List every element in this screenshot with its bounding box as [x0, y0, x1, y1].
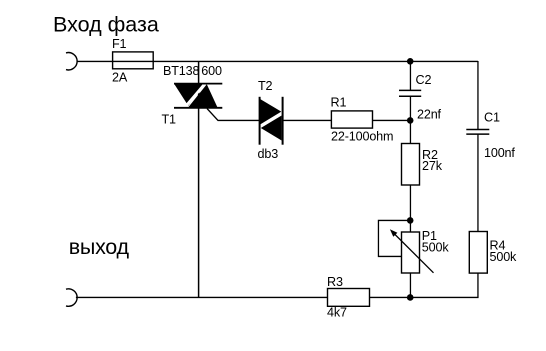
fuse F1	[113, 52, 154, 69]
node B junction dot	[407, 117, 414, 124]
svg-text:22-100ohm: 22-100ohm	[331, 130, 393, 144]
P1 arrowhead	[390, 229, 398, 236]
capacitor C1	[466, 129, 489, 134]
wire: T1 vertical x=198.5 from top rail to bottom rail	[198, 61, 200, 297]
T2 left bar	[259, 97, 261, 145]
P1 arrow line	[393, 232, 434, 273]
svg-text:600: 600	[201, 64, 222, 78]
resistor R1	[331, 111, 372, 128]
T2 right bar	[282, 97, 284, 145]
svg-text:27k: 27k	[422, 159, 443, 173]
T1 bottom bar (MT1)	[174, 107, 222, 109]
svg-text:F1: F1	[112, 37, 127, 51]
T1 top bar (MT2)	[174, 83, 222, 85]
triac T1	[174, 83, 222, 108]
svg-text:db3: db3	[258, 147, 279, 161]
wire: diac T2 to resistor R1	[283, 119, 332, 121]
wire: right vertical branch x=477.8 (C1/R4)	[477, 61, 479, 129]
svg-text:100nf: 100nf	[484, 146, 515, 160]
capacitor C2	[399, 90, 421, 96]
svg-text:500k: 500k	[422, 240, 450, 254]
T2 upper triangle	[261, 99, 282, 124]
wire: gate of T1 to diac T2	[207, 109, 260, 121]
white gap stripe of T1	[186, 83, 206, 107]
wire: bottom rail y=297.4 left part	[76, 296, 328, 298]
svg-text:4k7: 4k7	[327, 306, 347, 320]
svg-text:500k: 500k	[490, 250, 518, 264]
resistor R3	[328, 289, 370, 307]
potentiometer P1	[378, 220, 433, 273]
resistor R2	[402, 144, 420, 186]
svg-text:выход: выход	[69, 235, 130, 259]
wire: C2/R2 vertical branch x=410	[409, 61, 411, 90]
node D junction dot	[407, 294, 414, 301]
resistor R4	[469, 232, 487, 274]
wire: R1 to node B	[373, 119, 411, 121]
node A junction dot	[407, 58, 414, 65]
svg-text:C2: C2	[416, 73, 432, 87]
svg-text:22nf: 22nf	[417, 108, 442, 122]
left triangle of T1	[175, 84, 203, 106]
wire: R2 to P1 vertical	[409, 185, 411, 232]
svg-text:BT138: BT138	[163, 64, 200, 78]
diac T2	[260, 97, 283, 145]
wire: R4 to bottom rail corner	[410, 273, 478, 297]
right triangle of T1	[188, 84, 217, 107]
wire: P1 to bottom rail	[409, 273, 411, 297]
T2 lower triangle	[261, 116, 282, 141]
svg-text:Вход фаза: Вход фаза	[53, 13, 159, 37]
wire: top rail y=61 from input connector to top-right corner	[77, 60, 478, 62]
svg-text:T2: T2	[258, 79, 273, 93]
P1 wiper loop wire	[378, 220, 410, 256]
input connector (top left)	[66, 53, 77, 70]
wire: bottom rail R3 to node D	[370, 296, 411, 298]
node C junction dot	[407, 217, 414, 224]
svg-text:T1: T1	[162, 113, 177, 127]
output connector (bottom left)	[66, 289, 77, 306]
svg-text:R3: R3	[327, 275, 343, 289]
svg-text:2A: 2A	[112, 71, 128, 85]
svg-text:C1: C1	[484, 110, 500, 124]
svg-text:R1: R1	[331, 96, 347, 110]
